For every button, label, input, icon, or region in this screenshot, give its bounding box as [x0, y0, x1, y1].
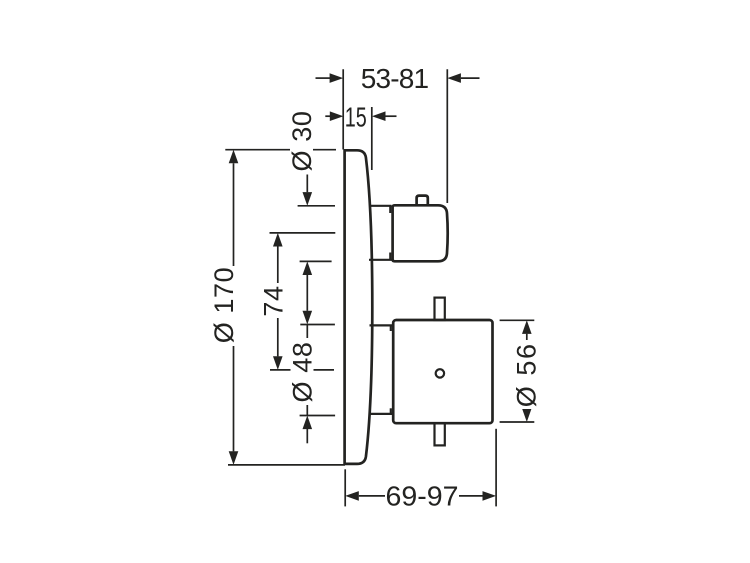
dimension 15: left arrow tail [325, 115, 330, 117]
dimension Ø170: bottom arrowhead (points down to plate bottom) [229, 451, 239, 465]
text mask 74 [262, 283, 284, 318]
shut-off valve knob Ø30 [393, 205, 448, 261]
dimension Ø30: top extension line (knob top) [298, 205, 335, 207]
text mask Ø170 [213, 266, 235, 346]
dimension 53-81: right arrowhead [447, 73, 461, 83]
svg-text:Ø 48: Ø 48 [288, 342, 318, 403]
dimension Ø48: bottom arrowhead (points up to sleeve bottom) [303, 416, 313, 430]
dimension 15: right arrow tail [386, 115, 397, 117]
dimension Ø30: dimension line above knob [306, 112, 308, 192]
svg-text:Ø 30: Ø 30 [287, 111, 317, 172]
dimension Ø56: dimension line through text [526, 334, 528, 409]
handle bottom pin [435, 423, 445, 445]
text mask Ø48 [291, 338, 314, 405]
dimension 15: right arrowhead [372, 111, 386, 121]
dimension 69-97: left tail [359, 495, 385, 497]
dimension Ø30: top arrowhead (points down to knob top) [303, 192, 313, 206]
shut-off valve neck (sleeve between plate and knob) [369, 206, 392, 260]
svg-text:69-97: 69-97 [386, 481, 459, 512]
dimension 53-81: right arrow tail [461, 77, 480, 79]
handle top pin [435, 298, 445, 320]
dimension 74: dimension line through text [277, 246, 279, 356]
index tab on knob [417, 196, 428, 206]
dimension Ø30: bottom extension line (knob bottom) [300, 260, 332, 262]
dimension Ø170: top arrowhead (points up to plate top) [229, 150, 239, 164]
thermostat square handle Ø56 [393, 320, 492, 423]
dimension 74: top extension line (knob axis) [270, 232, 336, 234]
text mask Ø30 [290, 111, 313, 175]
text mask Ø56 [515, 340, 538, 409]
dimension 69-97: right arrowhead (points right) [483, 491, 497, 501]
svg-text:74: 74 [259, 285, 289, 316]
dimension 53-81: left extension line (plate front edge extended up) [342, 69, 344, 149]
dimension 69-97: right extension line (below handle face) [495, 429, 497, 507]
sleeve step detail bottom [390, 408, 392, 414]
text mask 53-81 [362, 67, 428, 89]
dimension 53-81: right extension line (knob face extended up) [446, 69, 448, 203]
dimension Ø56: bottom extension line (handle bottom) [500, 421, 535, 423]
dimension 74: bottom extension line (handle axis) [270, 369, 334, 371]
sleeve step detail top [390, 325, 392, 331]
dimension Ø48: bottom extension line (sleeve bottom) [300, 415, 336, 417]
dimension 74: top arrowhead (points up to knob axis) [273, 233, 283, 247]
text mask 69-97 [386, 485, 458, 507]
shared tail between Ø30 and Ø48 arrows [306, 275, 308, 311]
neck step detail bottom [389, 253, 391, 260]
dimension Ø48: top arrowhead (points down to sleeve top) [303, 311, 313, 325]
dimension Ø48: dimension line through text [306, 325, 308, 416]
text mask 15 [345, 106, 368, 127]
neck step detail top [389, 206, 391, 213]
escutcheon plate (Ø170 wall plate, side view) [345, 150, 373, 464]
handle center ring [436, 369, 444, 377]
dimension Ø170: dimension line through text [233, 163, 235, 451]
svg-text:15: 15 [345, 102, 367, 133]
dimension 74: bottom arrowhead (points down to handle axis) [273, 356, 283, 370]
thermostat sleeve Ø48 (neck between plate and square handle) [370, 325, 394, 414]
dimension 53-81: left arrowhead [330, 73, 344, 83]
dimension Ø30: bottom arrowhead (points up to knob bottom) [303, 261, 313, 275]
svg-text:Ø 56: Ø 56 [511, 342, 541, 407]
svg-text:Ø 170: Ø 170 [209, 267, 239, 344]
dimension 69-97: left extension line (below plate) [344, 469, 346, 506]
dimension Ø56: top arrowhead (points up to handle top) [522, 320, 532, 334]
svg-text:53-81: 53-81 [361, 63, 429, 94]
dimension Ø48: top extension line (sleeve top) [300, 324, 335, 326]
dimension 15: right extension line (plate bulge) [371, 107, 373, 170]
dimension 69-97: left arrowhead (points left) [345, 491, 359, 501]
dimension Ø48: bottom tail [306, 429, 308, 443]
dimension Ø56: top extension line (handle top) [500, 319, 535, 321]
dimension 69-97: right tail [459, 495, 483, 497]
dimension Ø170: bottom extension line (plate bottom) [228, 464, 345, 466]
dimension 15: left arrowhead [330, 111, 344, 121]
dimension Ø56: bottom arrowhead (points down to handle bottom) [522, 408, 532, 422]
dimension 53-81: left arrow tail [316, 77, 331, 79]
dimension Ø170: top extension line (plate top) [225, 149, 336, 151]
